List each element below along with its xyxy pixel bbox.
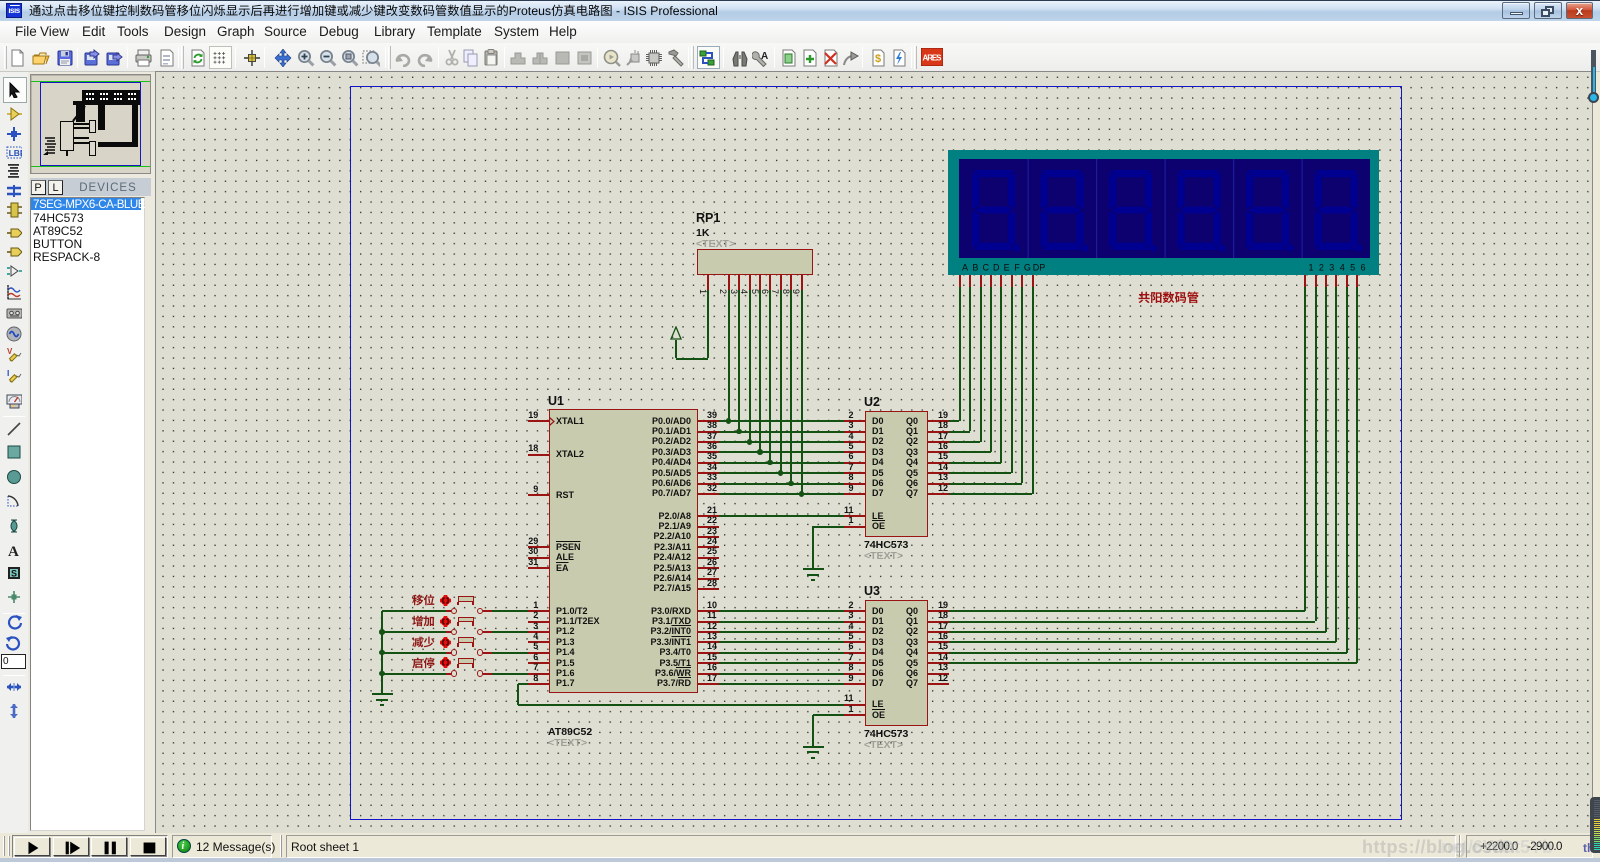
svg-text:A: A (8, 544, 19, 558)
svg-text:A: A (761, 51, 768, 62)
svg-text:S: S (11, 569, 17, 579)
svg-text:ARES: ARES (923, 54, 943, 63)
svg-text:4: 4 (1340, 263, 1345, 273)
svg-text:2: 2 (1319, 263, 1324, 273)
svg-text:I: I (7, 368, 9, 378)
svg-text:D: D (993, 263, 1000, 273)
svg-text:1: 1 (1308, 263, 1313, 273)
svg-text:LBL: LBL (9, 148, 22, 158)
svg-text:5: 5 (1350, 263, 1355, 273)
svg-text:E: E (1004, 263, 1010, 273)
svg-text:6: 6 (1360, 263, 1365, 273)
svg-text:$: $ (875, 53, 881, 65)
svg-text:3: 3 (1329, 263, 1334, 273)
svg-text:DP: DP (1033, 263, 1046, 273)
svg-text:C: C (983, 263, 990, 273)
svg-text:G: G (1024, 263, 1031, 273)
svg-text:B: B (972, 263, 978, 273)
svg-text:F: F (1014, 263, 1020, 273)
svg-text:A: A (962, 263, 968, 273)
svg-text:V: V (7, 347, 13, 356)
